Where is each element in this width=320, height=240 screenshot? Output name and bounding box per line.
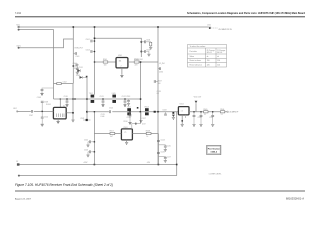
- junction dark: [137, 107, 139, 109]
- capacitor C514 shunt down: [41, 111, 43, 117]
- capacitor C521 shunt: [212, 112, 214, 116]
- junction W5 x=158.4: [158, 164, 160, 166]
- svg-text:J502: J502: [13, 108, 17, 110]
- svg-text:110: 110: [207, 60, 210, 62]
- varactor D501: [77, 64, 80, 66]
- svg-text:1k: 1k: [146, 136, 148, 138]
- wire U501 ground pin: [121, 68, 123, 75]
- ground: [120, 75, 123, 77]
- svg-text:6816532H01-A: 6816532H01-A: [286, 196, 304, 200]
- resistor R501: [103, 61, 108, 63]
- svg-text:45 MHZ IF: 45 MHZ IF: [229, 112, 239, 114]
- svg-text:R510: R510: [124, 121, 128, 123]
- power node above U503: [135, 123, 137, 125]
- capacitor C523: [91, 151, 94, 153]
- svg-text:220: 220: [207, 64, 210, 66]
- connector left end W5: [17, 163, 20, 165]
- svg-text:LOWER LEVEL: LOWER LEVEL: [209, 173, 222, 175]
- node left end W3: [18, 47, 20, 49]
- svg-text:C526: C526: [161, 151, 165, 153]
- svg-text:C505: C505: [146, 49, 150, 51]
- svg-text:Figure 7-105. HUF4076 Receive: Figure 7-105. HUF4076 Receiver Front-End…: [15, 183, 113, 187]
- svg-text:U502: U502: [180, 104, 184, 106]
- wire AGC feed line: [95, 38, 142, 57]
- mixer U502 (bold box): [178, 107, 189, 115]
- svg-text:C534: C534: [135, 59, 139, 61]
- svg-text:VDD 4.5V: VDD 4.5V: [194, 97, 202, 99]
- capacitor C509: [42, 88, 54, 89]
- wire vertical at x=73: [72, 84, 74, 120]
- capacitor C510: [66, 99, 68, 101]
- svg-text:LO_INJ: LO_INJ: [159, 63, 165, 65]
- svg-text:Value: Value: [190, 56, 194, 58]
- capacitor C502: [93, 40, 95, 42]
- resistor R506 series: [220, 111, 224, 113]
- svg-text:C507: C507: [29, 115, 33, 117]
- junction on W1: [73, 26, 75, 28]
- svg-text:L502: L502: [63, 81, 67, 83]
- junction: [94, 51, 96, 53]
- wire FL501 output stub: [66, 112, 73, 114]
- table of tuning values: [188, 45, 227, 68]
- junction varactor node: [86, 76, 88, 78]
- junction: [72, 112, 74, 114]
- wire FL501 top pin: [59, 99, 61, 107]
- junction: [60, 98, 61, 99]
- capacitor C513: [128, 99, 130, 100]
- osc U503 (bold box): [121, 129, 132, 140]
- svg-text:L505: L505: [112, 93, 116, 95]
- node left end W2: [18, 29, 20, 31]
- svg-text:BC-01: BC-01: [207, 52, 212, 54]
- wire W2: [19, 30, 54, 99]
- svg-text:C506: C506: [73, 63, 77, 65]
- capacitor C516 shunt: [129, 112, 131, 115]
- capacitor C524: [157, 141, 160, 142]
- op-amp U501 (LNA IC, bold box): [116, 58, 128, 68]
- wire vertical interstage x=140.5: [140, 62, 142, 124]
- junction dark: [181, 120, 183, 122]
- svg-text:T501: T501: [127, 106, 131, 108]
- svg-text:U501: U501: [118, 55, 122, 57]
- junction: [193, 111, 194, 112]
- svg-text:1 4: 1 4: [181, 111, 183, 113]
- ground: [181, 124, 184, 126]
- link wire x=87 chain to mixer chain: [86, 77, 88, 120]
- ground: [172, 117, 175, 119]
- ground: [41, 124, 44, 126]
- junction: [102, 98, 103, 99]
- connector left end W6: [18, 175, 20, 177]
- junction: [141, 51, 143, 53]
- header rule: [15, 16, 305, 18]
- wire U501 output: [128, 61, 158, 63]
- junction: [124, 98, 125, 99]
- wire U503 right: [132, 133, 158, 135]
- junction: [129, 111, 130, 112]
- svg-text:L506: L506: [101, 116, 105, 118]
- svg-text:C532: C532: [80, 118, 84, 120]
- svg-text:To select the values: To select the values: [190, 45, 206, 48]
- svg-text:Y1: Y1: [124, 132, 126, 134]
- diode D503: [80, 76, 83, 79]
- resistor R508: [146, 132, 151, 134]
- ground: [87, 152, 89, 155]
- resistor R502: [134, 61, 139, 63]
- svg-text:C504: C504: [146, 40, 150, 42]
- wire vertical feed to filter chain: [94, 27, 96, 95]
- svg-text:2: 2: [121, 66, 122, 68]
- capacitor C518: [154, 111, 156, 113]
- capacitor C501: [73, 53, 75, 55]
- svg-text:100: 100: [104, 65, 107, 67]
- transformer T501 (dark windings): [127, 108, 131, 111]
- junction: [72, 65, 74, 67]
- svg-text:R501: R501: [103, 59, 107, 61]
- svg-text:C514: C514: [44, 116, 48, 118]
- junction on vertical x=94.5: [94, 38, 96, 40]
- junction: [72, 98, 73, 99]
- svg-text:C501: C501: [75, 56, 79, 58]
- svg-text:Resis in ohms: Resis in ohms: [190, 60, 201, 62]
- capacitor C505: [141, 51, 144, 53]
- filter chain: wire: [54, 98, 141, 100]
- svg-text:RXIN_FILT: RXIN_FILT: [75, 48, 83, 50]
- junction on chain: [94, 111, 95, 112]
- junction on W1 at x=94.5: [94, 26, 96, 28]
- transformer T502b (dark windings): [145, 108, 149, 111]
- svg-text:C517: C517: [142, 118, 146, 120]
- wire U502 IF output: [189, 111, 227, 113]
- capacitor C504: [141, 41, 144, 43]
- capacitor C526: [157, 153, 160, 154]
- junction: [140, 61, 142, 63]
- svg-text:C522: C522: [84, 140, 88, 142]
- svg-text:C527: C527: [167, 157, 171, 159]
- capacitor C530: [158, 68, 160, 70]
- svg-text:C508: C508: [44, 101, 48, 103]
- capacitor C515 series: [109, 110, 112, 114]
- junction: [42, 111, 43, 112]
- wire U502 bottom pin 1: [181, 115, 183, 124]
- wire dashed to label: [211, 27, 217, 29]
- footer rule: [15, 190, 305, 192]
- svg-text:220: 220: [135, 65, 138, 67]
- capacitor C512: [124, 99, 126, 101]
- wire FL501 ground pin: [57, 119, 59, 121]
- svg-text:U503: U503: [123, 127, 127, 129]
- wire power stub: [195, 103, 197, 112]
- note box Part Section: [207, 145, 221, 154]
- wire U503 ground pin: [126, 140, 128, 142]
- wire vertical from mixer to W6: [176, 112, 178, 176]
- junction: [66, 98, 67, 99]
- svg-text:R506: R506: [220, 109, 224, 111]
- wire W4 into FL501: [17, 110, 54, 112]
- junction dark at mixer input: [172, 112, 174, 114]
- junction on W1 at x=158: [157, 26, 159, 28]
- svg-text:110: 110: [217, 60, 220, 62]
- junction W5 x=94.4: [94, 164, 96, 166]
- capacitor C511: [102, 99, 104, 101]
- svg-text:C530: C530: [159, 72, 163, 74]
- inductor L505 (dark windings): [112, 95, 116, 98]
- wire into U501 left: [95, 61, 117, 63]
- wire W3 control line: [19, 39, 73, 48]
- junction: [94, 141, 95, 142]
- ground: [71, 120, 74, 122]
- svg-text:4k7: 4k7: [110, 136, 113, 138]
- resistor R507: [110, 132, 115, 134]
- ground: [87, 142, 89, 145]
- svg-text:CNTL: CNTL: [16, 45, 20, 47]
- wire W5 supply rail: [19, 164, 177, 166]
- svg-text:C520: C520: [198, 117, 202, 119]
- svg-text:dc: dc: [217, 56, 219, 58]
- antenna connector J501 at end of W1: [209, 27, 211, 29]
- FL501 pin hatching: [57, 114, 65, 118]
- svg-text:C525: C525: [167, 145, 171, 147]
- resistor R509: [156, 81, 158, 83]
- wire W1 RX input line: [19, 26, 209, 28]
- svg-text:51: 51: [221, 114, 223, 116]
- junction link at x=87: [86, 98, 88, 100]
- svg-text:R508: R508: [146, 131, 150, 133]
- capacitor C508 shunt up: [41, 103, 43, 111]
- wire vertical left leg to W5: [93, 112, 95, 165]
- svg-text:J501: J501: [207, 25, 211, 27]
- junction: [94, 40, 96, 42]
- svg-text:Q501: Q501: [139, 59, 143, 61]
- svg-text:C512: C512: [122, 96, 126, 98]
- junction: [212, 111, 213, 112]
- junction: [74, 98, 75, 99]
- table text: [190, 45, 226, 66]
- svg-text:301: 301: [119, 60, 122, 62]
- svg-text:FL501: FL501: [46, 104, 51, 106]
- svg-text:C513: C513: [126, 96, 130, 98]
- svg-text:Resis tolerance: Resis tolerance: [190, 63, 202, 66]
- junction at (94.5,62): [94, 61, 95, 62]
- svg-text:Schematics, Component Location: Schematics, Component Location Diagrams …: [187, 11, 305, 15]
- svg-text:C516: C516: [127, 117, 131, 119]
- svg-text:August 24, 2007: August 24, 2007: [15, 198, 32, 201]
- svg-text:dc: dc: [207, 56, 209, 58]
- svg-text:C510: C510: [64, 96, 68, 98]
- svg-text:C524: C524: [161, 139, 165, 141]
- junction: [200, 111, 201, 112]
- svg-text:C523: C523: [84, 150, 88, 152]
- svg-text:RX1: RX1: [16, 24, 19, 26]
- capacitor C532 bypass: [83, 119, 91, 121]
- svg-text:C515: C515: [109, 108, 113, 110]
- svg-text:C521: C521: [209, 117, 213, 119]
- capacitor C525 stub: [158, 145, 165, 146]
- filter module FL501 (bold box): [53, 107, 66, 119]
- connector IF out: [227, 111, 229, 113]
- svg-text:110: 110: [217, 64, 220, 66]
- junction: [86, 111, 88, 113]
- junction: [141, 41, 143, 43]
- svg-text:51: 51: [204, 114, 206, 116]
- svg-text:BC-02: BC-02: [217, 52, 222, 54]
- junction: [140, 111, 142, 113]
- mixer input chain wire: [87, 111, 178, 113]
- svg-text:Part data: Part data: [190, 50, 197, 53]
- diode D502: [78, 69, 81, 72]
- svg-text:4x: 4x: [63, 106, 65, 108]
- svg-text:#206-2: #206-2: [211, 151, 218, 153]
- inductor L502 above filter FL501: [54, 83, 74, 85]
- svg-text:D502: D502: [74, 68, 78, 70]
- capacitor C507 series on W4: [31, 109, 34, 113]
- svg-text:7-164: 7-164: [15, 13, 22, 15]
- svg-text:C502: C502: [86, 39, 90, 41]
- junction on LO bus: [157, 111, 159, 113]
- wire vertical RXIN_FILT node: [72, 27, 74, 84]
- junction: [94, 151, 95, 152]
- svg-text:C518: C518: [162, 110, 166, 112]
- node J1 left end W1: [18, 26, 20, 28]
- svg-text:R504: R504: [145, 106, 149, 108]
- svg-text:R505: R505: [203, 109, 207, 111]
- wire U503 left: [94, 133, 121, 135]
- ground: [125, 142, 128, 144]
- resistor R505 series: [204, 111, 208, 113]
- svg-text:T502: T502: [89, 93, 93, 95]
- capacitor C517 shunt: [140, 112, 142, 120]
- capacitor C527 stub: [158, 156, 165, 157]
- wire W6 bottom return: [19, 175, 177, 177]
- svg-text:C531: C531: [79, 67, 83, 69]
- capacitor C520 shunt: [200, 112, 202, 116]
- ground: [57, 121, 60, 123]
- diode D504 polarized to ground: [172, 115, 175, 117]
- capacitor C531: [73, 66, 77, 68]
- wire LO vertical bus: [157, 27, 159, 165]
- capacitor C522: [91, 141, 94, 143]
- svg-text:C503: C503: [86, 50, 90, 52]
- capacitor C519 shunt: [193, 112, 195, 116]
- svg-text:D503: D503: [76, 75, 80, 77]
- svg-text:R507: R507: [110, 131, 114, 133]
- connector J502: [16, 111, 18, 113]
- svg-text:45J MHZ RX IN: 45J MHZ RX IN: [218, 29, 232, 31]
- junction: [140, 98, 142, 100]
- wire vertical right leg to W5: [157, 134, 159, 165]
- wire U502 bottom pin 2: [184, 115, 186, 118]
- junction W5 end: [176, 164, 178, 166]
- resistor R503: [150, 42, 152, 46]
- svg-text:C511: C511: [100, 96, 104, 98]
- capacitor C503: [93, 51, 95, 53]
- svg-text:Part Section: Part Section: [208, 148, 221, 151]
- transformer T502 (dark windings): [91, 95, 95, 98]
- svg-text:C509: C509: [37, 97, 41, 99]
